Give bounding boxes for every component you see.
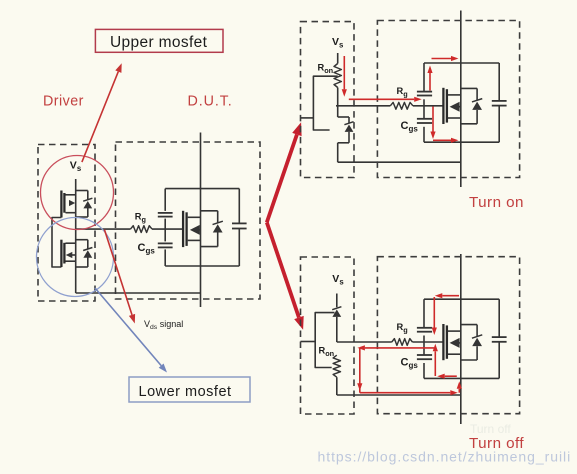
turn-on: resistor Rg (390, 102, 413, 109)
resistor Rg (left) (131, 226, 153, 233)
callout box Lower mosfet (129, 377, 250, 402)
turn-off: wire Ron to ground (336, 377, 338, 395)
body diode of upper driver mosfet (76, 191, 93, 218)
turn-on: capacitor Cgs plates (417, 118, 432, 120)
left circuit: D.U.T. dashed box (116, 142, 261, 299)
turn-on: wire ground return (338, 161, 461, 163)
turn-on: wire gate bracket (313, 76, 337, 130)
turn-off: red wire down to ground path (359, 348, 361, 393)
wire Rg to gate node (left) (152, 228, 183, 230)
turn-off: body diode of upper driver mosfet (332, 307, 341, 342)
turn-off: capacitor Cgd plates (417, 327, 432, 329)
turn-off: wire Vs lead (336, 294, 338, 308)
turn-off: capacitor Cds (right branch) (492, 336, 507, 338)
svg-text:Rg: Rg (397, 322, 408, 335)
turn-on: D.U.T. mosfet (443, 88, 460, 124)
turn-off: resistor Ron (333, 355, 340, 377)
wire drain rail (left) (200, 133, 202, 308)
turn-off: red arrow along ground to rail (360, 392, 451, 394)
capacitor Cds (left, right branch) (232, 222, 247, 224)
red circle highlighting upper mosfet (41, 156, 114, 230)
turn-on: red arrow current from Vs down (343, 56, 345, 89)
red arrow from gate wire to Vds signal label (104, 230, 132, 315)
left circuit: driver dashed box (38, 145, 95, 302)
svg-text:Cgs: Cgs (138, 242, 156, 256)
turn-on: red arrow current through Rg (349, 98, 414, 100)
transistor D.U.T. mosfet (left) (183, 211, 200, 247)
turn-on: capacitor Cds (right branch) (492, 100, 507, 102)
turn-off: gate loop box (424, 299, 499, 378)
turn-off: D.U.T. dashed box (377, 257, 519, 414)
turn-on: wire Rg to gate (413, 105, 443, 107)
svg-text:Cgs: Cgs (401, 356, 419, 370)
turn-on: wire gate input stub (301, 117, 314, 119)
turn-off: capacitor Cgs plates (417, 354, 432, 356)
svg-text:Cgs: Cgs (401, 120, 419, 134)
svg-text:D.U.T.: D.U.T. (188, 94, 233, 110)
turn-on: drain rail (460, 11, 462, 188)
turn-on: red arrow up through Cgd (429, 73, 431, 91)
body diode of lower driver mosfet (76, 240, 93, 267)
svg-text:Driver: Driver (43, 94, 84, 110)
turn-on: lower driver mosfet off-path with body diode (338, 106, 354, 162)
turn-on: resistor Ron (334, 64, 341, 88)
big red arrow to turn-off circuit (267, 222, 299, 317)
capacitor Cgd (left, upper plates) (158, 212, 173, 214)
svg-text:Turn off: Turn off (470, 422, 511, 436)
wire Vs lead to upper mosfet drain (75, 179, 77, 230)
svg-text:Turn on: Turn on (469, 194, 524, 211)
turn-off: wire output to Rg (337, 341, 392, 343)
turn-off: wire gate input stub (301, 341, 316, 343)
turn-on: red arrow along top to rail (432, 58, 452, 60)
body diode of D.U.T. mosfet (left) (201, 211, 223, 247)
turn-off: resistor Rg (392, 339, 413, 346)
turn-on: D.U.T. dashed box (377, 21, 519, 178)
turn-on: capacitor Cgd plates (417, 91, 432, 93)
turn-off: wire Rg to gate (412, 341, 442, 343)
capacitor Cgs (left, lower plates) (158, 242, 173, 244)
callout box Upper mosfet (95, 29, 223, 52)
svg-text:Lower mosfet: Lower mosfet (139, 384, 232, 400)
turn-off: driver dashed box (301, 257, 355, 414)
svg-text:Vs: Vs (332, 273, 344, 287)
svg-text:Ron: Ron (319, 346, 335, 358)
svg-text:Vds signal: Vds signal (144, 319, 183, 331)
turn-off: red arrow gate current toward driver (365, 347, 434, 349)
svg-text:Rg: Rg (135, 212, 146, 225)
turn-on: red arrow down through Cgs (432, 107, 434, 132)
svg-text:Rg: Rg (397, 86, 408, 99)
turn-off: wire gate bracket (315, 313, 334, 368)
turn-off: red arrow from rail along top (442, 295, 459, 297)
turn-off: red arrowhead down on ground path (357, 383, 362, 391)
svg-text:https://blog.csdn.net/zhuimeng: https://blog.csdn.net/zhuimeng_ruili (318, 449, 572, 465)
turn-on: driver dashed box (301, 22, 355, 178)
svg-text:Upper mosfet: Upper mosfet (110, 34, 208, 51)
wire driver output to Rg (left) (76, 228, 131, 230)
big red arrow to turn-on circuit (267, 135, 297, 223)
svg-text:Vs: Vs (70, 160, 82, 174)
turn-on: red arrow along bottom to rail (433, 139, 451, 141)
transistor lower driver mosfet (61, 230, 75, 293)
blue circle highlighting lower mosfet (37, 218, 114, 297)
red arrow from Vs to Upper mosfet box (82, 72, 118, 163)
turn-off: D.U.T. mosfet (443, 324, 460, 360)
svg-text:Vs: Vs (332, 36, 344, 50)
turn-off: wire ground return (337, 394, 461, 396)
turn-on: gate loop box (424, 63, 499, 142)
node gate loop box (left D.U.T.) (165, 189, 239, 266)
turn-on: body diode of D.U.T. mosfet (461, 88, 482, 123)
transistor upper driver mosfet (61, 191, 75, 218)
turn-off: red arrow from rail along bottom (445, 375, 457, 377)
wire gate bracket of driver mosfets (52, 218, 61, 268)
svg-text:Ron: Ron (318, 63, 334, 75)
turn-off: red arrow up through Cgs (434, 351, 436, 376)
wire ground return (left) (76, 292, 201, 294)
turn-on: wire Vs lead (337, 53, 339, 64)
turn-off: drain rail (460, 254, 462, 424)
turn-off: red arrow up at rail from ground path (458, 389, 460, 393)
blue arrow from blue circle to Lower mosfet box (95, 288, 161, 366)
turn-off: red arrow down through Cgd (433, 297, 435, 328)
turn-off: body diode of D.U.T. mosfet (461, 325, 482, 360)
turn-on: wire output to Rg (336, 105, 390, 107)
turn-on: wire Ron to output node (337, 88, 339, 106)
